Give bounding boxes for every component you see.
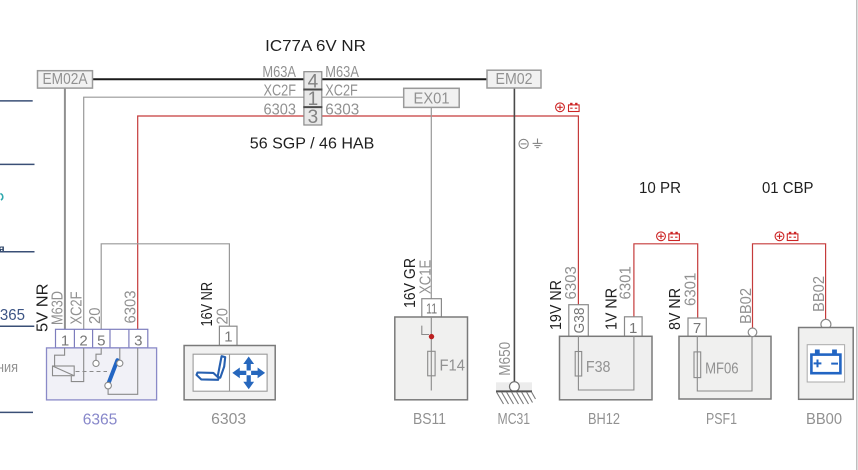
- svg-text:01 CBP: 01 CBP: [762, 180, 814, 197]
- svg-text:6303: 6303: [122, 290, 139, 323]
- MC31 ground terminal circle: [510, 382, 520, 392]
- connector IC77A separator 2: [303, 106, 322, 108]
- wire M63D: [64, 88, 66, 329]
- svg-text:7: 7: [693, 320, 701, 337]
- BS11 pin 11 box: [422, 299, 442, 317]
- wire 6303 red right: [322, 116, 579, 305]
- BS11 body: [395, 317, 468, 400]
- fuse box PSF1: [679, 318, 771, 428]
- svg-text:XC2F: XC2F: [325, 83, 358, 100]
- svg-text:6303: 6303: [264, 101, 297, 118]
- svg-text:1: 1: [224, 329, 232, 346]
- ground point MC31: [496, 382, 536, 428]
- wire XC1E EX01 to BS11: [430, 107, 432, 298]
- svg-text:1: 1: [61, 332, 69, 349]
- frame right border: [856, 0, 858, 470]
- wire red bridge PSF1 to BB00: [753, 244, 826, 328]
- relay 6365 internal wire pin5 to contact: [96, 348, 101, 360]
- box EX01: [404, 88, 460, 107]
- seat module 6303 pin 1 box: [219, 326, 237, 345]
- svg-text:BH12: BH12: [588, 411, 620, 428]
- svg-text:M63A: M63A: [262, 64, 296, 81]
- svg-text:16V GR: 16V GR: [402, 258, 419, 308]
- svg-text:PSF1: PSF1: [706, 411, 737, 428]
- svg-text:M63D: M63D: [49, 291, 66, 325]
- relay 6365 internal wire coil to pin2: [71, 348, 83, 382]
- svg-text:20: 20: [87, 307, 104, 324]
- svg-text:EX01: EX01: [414, 90, 450, 107]
- svg-text:56 SGP / 46 HAB: 56 SGP / 46 HAB: [250, 136, 374, 153]
- wire M650 EM02 to MC31: [513, 88, 515, 382]
- seat module 6303 move arrows icon: [232, 357, 265, 390]
- BB00 body: [799, 328, 854, 400]
- wire 20: [101, 244, 229, 329]
- svg-text:XC2F: XC2F: [264, 83, 297, 100]
- relay 6365 contact circle A: [93, 360, 99, 366]
- BB00 inner panel: [807, 345, 844, 382]
- relay 6365 internal wire pin1 to coil: [55, 348, 65, 366]
- svg-text:BB02: BB02: [811, 276, 828, 312]
- ground reference symbol earth: [533, 139, 543, 148]
- PSF1 pin 7 box: [688, 318, 706, 336]
- svg-text:6303: 6303: [563, 266, 580, 299]
- wire 6303 red left: [138, 116, 304, 329]
- relay 6365 internal wire blank pin to contact: [119, 348, 121, 360]
- PSF1 body: [679, 336, 771, 399]
- legend link underline fragment 3: [0, 251, 35, 253]
- wire XC2F grey left: [84, 97, 304, 329]
- svg-text:XC1E: XC1E: [418, 260, 435, 294]
- box EM02A: [38, 71, 93, 89]
- BH12 internal wire: [578, 336, 634, 390]
- connector IC77A separator 1: [303, 89, 322, 91]
- MC31 ground pad: [496, 382, 532, 391]
- svg-text:3: 3: [308, 107, 319, 128]
- svg-text:6365: 6365: [0, 307, 25, 324]
- svg-text:6301: 6301: [618, 266, 635, 299]
- battery BB00: [799, 319, 854, 428]
- svg-text:5: 5: [97, 332, 105, 349]
- svg-text:11: 11: [426, 300, 437, 317]
- BB00 terminal circle: [821, 319, 831, 329]
- relay 6365 body: [47, 348, 157, 400]
- wire M63A black left: [92, 78, 304, 80]
- legend link underline fragment 4: [0, 325, 34, 327]
- relay 6365 contact circle C: [105, 382, 112, 389]
- box EM02: [487, 70, 541, 88]
- relay 6365 coil: [53, 366, 75, 376]
- svg-text:XC2F: XC2F: [69, 291, 86, 324]
- legend link underline fragment 5: [0, 411, 33, 413]
- svg-text:ния: ния: [0, 359, 18, 376]
- relay 6365 switch arm: [109, 360, 118, 383]
- connector IC77A pin column: [304, 72, 322, 125]
- svg-text:EM02A: EM02A: [43, 71, 88, 88]
- BB00 battery icon: [811, 350, 840, 374]
- BH12 pin 1 box: [625, 317, 643, 337]
- BH12 fuse F38: [575, 352, 582, 377]
- svg-text:G38: G38: [571, 308, 588, 334]
- svg-text:EM02: EM02: [496, 71, 533, 88]
- PSF1 fuse MF06: [694, 352, 701, 378]
- svg-text:3: 3: [134, 332, 142, 349]
- MC31 ground hatching: [497, 392, 536, 404]
- wire XC2F grey right: [322, 96, 404, 98]
- BSI unit BS11: [395, 299, 468, 428]
- svg-text:1: 1: [629, 320, 637, 337]
- battery feed symbol 1 plus: [556, 103, 565, 112]
- wire M63A black right: [322, 78, 487, 80]
- wire red bridge BH12 to PSF1: [634, 244, 698, 318]
- svg-text:M63A: M63A: [325, 64, 359, 81]
- MC31 ground line: [496, 390, 532, 392]
- BS11 internal branch hook: [422, 326, 429, 335]
- battery feed symbol 2 battery: [669, 232, 680, 241]
- svg-text:BB02: BB02: [738, 288, 755, 324]
- svg-text:BB00: BB00: [806, 411, 842, 428]
- battery feed symbol 3 battery: [787, 232, 798, 241]
- seat module 6303 inner panel: [193, 354, 267, 391]
- legend link underline fragment 2: [0, 163, 35, 165]
- legend link underline fragment 1: [0, 100, 33, 102]
- seat module 6303: [184, 326, 275, 428]
- svg-text:я: я: [0, 244, 5, 256]
- svg-text:MF06: MF06: [705, 361, 739, 378]
- svg-text:6301: 6301: [683, 273, 700, 306]
- BS11 fuse F14: [428, 351, 435, 376]
- relay 6365 pin row: [56, 329, 148, 348]
- svg-text:6303: 6303: [325, 101, 359, 118]
- svg-text:10 PR: 10 PR: [639, 180, 681, 197]
- svg-text:M650: M650: [497, 342, 514, 376]
- BS11 junction red dot: [429, 334, 434, 339]
- svg-text:2: 2: [79, 332, 87, 349]
- ground reference symbol minus: [519, 139, 528, 148]
- relay 6365 contact circle B: [117, 360, 123, 366]
- svg-text:F38: F38: [586, 359, 611, 376]
- legend teal letter fragment: [0, 194, 2, 200]
- svg-text:6303: 6303: [211, 411, 246, 428]
- svg-text:IC77A 6V NR: IC77A 6V NR: [265, 38, 366, 55]
- BS11 internal wire: [430, 317, 432, 391]
- BH12 body: [560, 336, 653, 400]
- relay 6365 mechanical link dashed: [76, 371, 108, 373]
- svg-text:BS11: BS11: [413, 411, 446, 428]
- svg-text:20: 20: [215, 308, 232, 325]
- svg-text:MC31: MC31: [498, 411, 531, 428]
- svg-text:8V NR: 8V NR: [667, 288, 684, 330]
- fuse box BH12: [560, 305, 653, 428]
- battery feed symbol 1 battery: [569, 103, 580, 112]
- PSF1 internal wire: [697, 336, 752, 391]
- svg-text:6365: 6365: [83, 412, 118, 429]
- svg-text:16V NR: 16V NR: [199, 282, 216, 327]
- relay 6365 internal wire pin3 to switch: [108, 348, 138, 394]
- battery feed symbol 2 plus: [657, 232, 666, 241]
- relay 6365: [47, 329, 157, 428]
- BH12 pin G38 box: [569, 305, 589, 337]
- PSF1 BB02 terminal circle: [748, 328, 757, 337]
- battery feed symbol 3 plus: [775, 232, 784, 241]
- seat module 6303 seat icon: [197, 356, 226, 380]
- svg-text:F14: F14: [440, 358, 466, 375]
- seat module 6303 body: [184, 346, 275, 400]
